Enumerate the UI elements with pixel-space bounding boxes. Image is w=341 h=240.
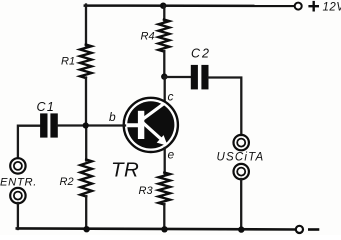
wire R4 bottom to collector node xyxy=(163,51,165,77)
wire ENTR bottom terminal to ground rail xyxy=(17,203,19,229)
svg-text:ENTR.: ENTR. xyxy=(0,177,37,189)
resistor R2 xyxy=(80,160,92,197)
resistor R3 xyxy=(159,173,171,205)
wire R3 bottom to ground rail xyxy=(163,204,165,229)
svg-text:USCiTA: USCiTA xyxy=(217,152,265,164)
resistor R1 xyxy=(80,45,92,79)
terminal minus xyxy=(296,226,303,233)
capacitor C1 xyxy=(40,113,47,137)
resistor R4 xyxy=(158,20,169,52)
wire USCITA bottom to ground rail xyxy=(240,179,242,230)
wire base line: ENTR corner to C1 xyxy=(18,126,40,158)
capacitor C2 xyxy=(191,65,198,90)
svg-text:b: b xyxy=(109,110,116,124)
wire top rail +12V xyxy=(85,4,295,7)
svg-text:R2: R2 xyxy=(60,176,74,188)
wire base node down to R2 xyxy=(85,126,87,161)
svg-text:R4: R4 xyxy=(141,31,155,43)
wire top rail to R4 xyxy=(163,6,165,21)
wire R2 bottom to ground rail xyxy=(85,196,87,229)
wire C2 right plate to corner and down to USCITA xyxy=(208,78,241,136)
wire left vertical from top rail to R1 xyxy=(85,5,87,46)
terminal ENTR top xyxy=(10,158,25,173)
node R3-ground junction xyxy=(161,226,167,232)
plus symbol xyxy=(310,2,318,10)
svg-text:R1: R1 xyxy=(61,56,75,68)
svg-text:e: e xyxy=(168,148,175,162)
terminal ENTR bottom xyxy=(10,188,25,203)
wire emitter down to R3 xyxy=(164,148,166,174)
minus symbol xyxy=(309,228,318,231)
node collector / C2 branch junction xyxy=(161,73,167,79)
wire R1 bottom to base node xyxy=(85,78,87,127)
wire C1 to base of TR xyxy=(58,124,125,126)
transistor TR (NPN, inverse video) xyxy=(124,98,178,152)
terminal +12V xyxy=(295,3,302,10)
svg-text:c: c xyxy=(168,90,174,104)
node USCITA-ground junction xyxy=(238,226,244,232)
terminal USCITA bottom xyxy=(234,164,249,179)
svg-text:C2: C2 xyxy=(191,47,211,61)
wire bottom rail xyxy=(17,228,296,229)
wire junction to C2 left plate xyxy=(164,76,191,78)
terminal USCITA top xyxy=(234,135,249,150)
svg-text:TR: TR xyxy=(111,159,139,182)
wire collector lead down to transistor xyxy=(164,77,166,101)
node R2-ground junction xyxy=(83,226,89,232)
svg-text:12V: 12V xyxy=(323,2,341,14)
node R4 top rail junction xyxy=(160,2,166,8)
node base junction xyxy=(83,122,89,128)
svg-text:R3: R3 xyxy=(139,185,154,197)
svg-text:C1: C1 xyxy=(37,100,56,114)
